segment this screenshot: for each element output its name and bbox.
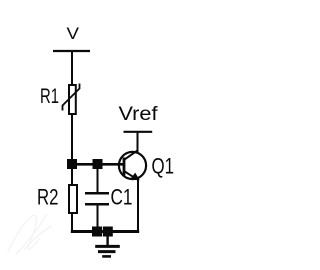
- wire C1 to bottom rail: [97, 205, 99, 231]
- junction node C1 bottom: [92, 227, 102, 237]
- svg-text:V: V: [67, 24, 80, 43]
- wire V to R1: [71, 52, 73, 85]
- svg-text:Q1: Q1: [152, 154, 175, 179]
- junction node C1 top: [93, 159, 103, 169]
- bottom rail wire: [71, 230, 139, 233]
- transistor Q1 circle: [119, 152, 146, 179]
- svg-text:Vref: Vref: [119, 104, 159, 125]
- terminal bar Vref: [124, 131, 153, 133]
- junction node R1/R2/base: [67, 159, 77, 169]
- transistor Q1 emitter arrowhead: [130, 173, 140, 181]
- svg-text:R2: R2: [37, 185, 59, 210]
- wire junction to C1 top: [97, 168, 99, 193]
- ground bar 3: [102, 255, 111, 258]
- capacitor C1 top plate: [85, 192, 109, 195]
- terminal bar V: [53, 50, 90, 52]
- wire junction to R2: [71, 168, 73, 186]
- transistor Q1 collector stroke: [125, 151, 138, 160]
- wire base node to Q1 base: [72, 163, 123, 166]
- collector wire Q1: [137, 132, 139, 152]
- transistor Q1 base bar: [123, 158, 126, 176]
- ground stem: [106, 233, 108, 246]
- resistor R1 body: [69, 85, 76, 114]
- emitter wire Q1 to rail: [137, 180, 139, 231]
- svg-text:R1: R1: [40, 85, 59, 108]
- junction node ground: [103, 227, 113, 237]
- thermistor diagonal R1: [63, 84, 80, 111]
- ground bar 1: [95, 245, 120, 248]
- resistor R2 body: [69, 185, 77, 213]
- capacitor C1 bottom plate: [85, 203, 109, 206]
- wire R2 to bottom rail: [71, 213, 73, 231]
- svg-text:C1: C1: [111, 185, 133, 210]
- ground bar 2: [98, 250, 116, 253]
- transistor Q1 emitter stroke: [125, 171, 136, 178]
- wire R1 to base node: [71, 114, 73, 164]
